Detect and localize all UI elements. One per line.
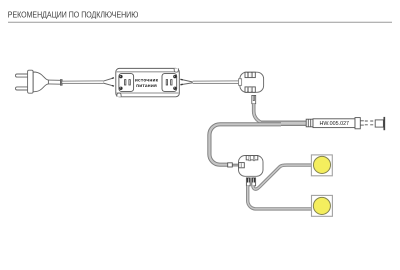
connector J1 bottom port [245,87,255,92]
splitter J2 top port pin 2 [253,156,254,161]
svg-text:питания: питания [136,84,157,89]
PSU screw bottom-left [119,87,122,90]
wire: cable splitter to LED1 [253,165,312,189]
connector J1 bottom port pin 2 [251,87,252,92]
wire: split conductor upper out of PSU [180,79,193,82]
title underline [8,21,392,23]
plug XP1 collar [60,80,62,86]
connector J1 left port [239,79,242,86]
wire: loop cable to splitter J2 [209,124,281,164]
LED module 1 chip [313,156,330,173]
wire: split conductor upper into PSU [103,78,113,81]
LED module 2 chip [313,197,330,214]
splitter J2 body [239,156,264,177]
splitter J2 bottom plug 1 [246,178,250,186]
PSU socket right slot 2 [171,80,172,85]
end plug body [375,120,383,127]
wire: split conductor lower into PSU [103,83,113,86]
connector J1 body [240,72,264,92]
PSU lid seam bottom [117,92,179,94]
wire: cable splitter to LED2 [248,186,312,209]
plug XP1 prong bottom [16,87,29,90]
connector J1 top port [245,72,255,77]
splitter J2 top port [246,156,258,160]
svg-text:РЕКОМЕНДАЦИИ ПО ПОДКЛЮЧЕНИЮ: РЕКОМЕНДАЦИИ ПО ПОДКЛЮЧЕНИЮ [8,10,139,20]
PSU socket left slot 1 [125,80,126,85]
connector J1 output plug [252,95,256,103]
LED module 1 frame [311,155,332,176]
dashed continuation lines [365,120,375,122]
splitter J2 left port [239,163,245,168]
wire: mains cable plug to PSU [62,80,103,83]
HW module left cap [306,119,313,127]
connector J1 top port pin 1 [247,73,248,78]
splitter J2 bottom plug 2 [252,178,256,186]
HW module right cap [355,118,360,129]
plug XP1 face plate [28,70,33,93]
PSU socket left slot 2 [129,80,130,85]
PSU socket right slot 1 [166,80,167,85]
plug into splitter J2 [228,163,233,167]
PSU screw top-right [173,75,176,78]
LED module 2 frame [312,195,333,216]
PSU lid seam top [117,71,179,73]
PSU screw top-left [119,75,122,78]
svg-text:HW.005.027: HW.005.027 [320,121,350,127]
plug XP1 neck [48,80,60,84]
svg-text:источник: источник [135,78,159,83]
power supply PSU case [116,68,180,96]
PSU screw bottom-right [173,87,176,90]
splitter J2 top port pin 1 [249,156,250,161]
wire: cable J1 to HW module [254,104,306,124]
PSU socket right [162,74,177,92]
end plug flange [383,117,385,130]
wire: split conductor lower out of PSU [180,83,193,85]
PSU mounting notch top-right [174,68,178,72]
plug XP1 body [33,72,48,92]
HW module body with label HW.005.027 [313,119,355,128]
PSU socket left [119,74,134,92]
wire: cable PSU to connector J1 [193,80,239,84]
PSU mounting notch bottom-left [117,93,121,97]
HW module pins [360,120,364,122]
connector J1 top port pin 2 [251,73,252,78]
plug XP1 prong top [16,74,29,77]
connector J1 bottom port pin 1 [247,87,248,92]
